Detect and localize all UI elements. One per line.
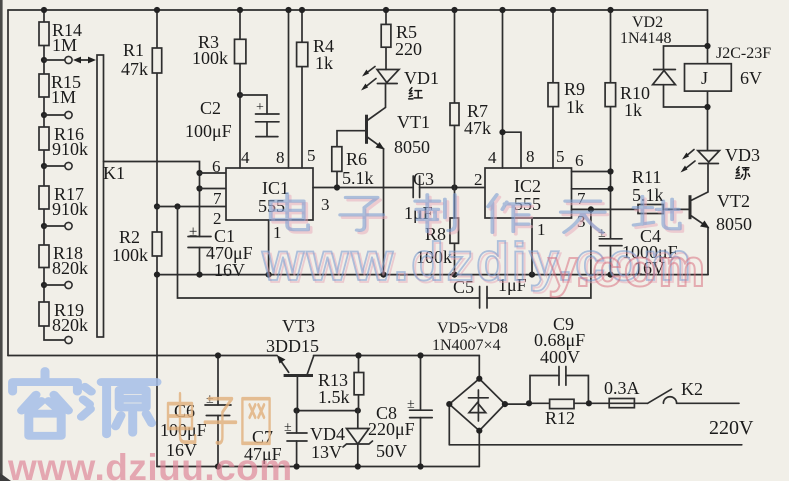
node C8 top bbox=[417, 352, 423, 358]
svg-text:100k: 100k bbox=[112, 245, 148, 265]
resistor R7 bbox=[450, 101, 491, 138]
resistor R10 bbox=[605, 83, 650, 120]
svg-text:VT3: VT3 bbox=[282, 316, 315, 336]
resistor R6 bbox=[332, 131, 374, 188]
svg-text:8050: 8050 bbox=[716, 214, 752, 234]
wire IC1 pin6 bbox=[200, 172, 227, 174]
node top rail junctions bbox=[154, 7, 160, 13]
svg-text:C3: C3 bbox=[413, 169, 434, 189]
wire IC1 pin8 from rail bbox=[288, 10, 290, 168]
svg-text:C2: C2 bbox=[200, 98, 221, 118]
wire K1 to IC1 pins 6/7 bbox=[104, 162, 200, 237]
svg-text:R6: R6 bbox=[346, 149, 367, 169]
wire left edge vertical bbox=[7, 10, 9, 356]
svg-text:1k: 1k bbox=[315, 53, 333, 73]
transistor VT3 3DD15 series regulator bbox=[266, 316, 319, 411]
node R13 top bbox=[355, 352, 361, 358]
svg-text:6: 6 bbox=[575, 151, 584, 170]
svg-text:4: 4 bbox=[241, 148, 250, 167]
node VD4 ground bbox=[355, 463, 361, 469]
svg-text:VT1: VT1 bbox=[397, 112, 430, 132]
svg-text:0.3A: 0.3A bbox=[604, 378, 640, 398]
resistor R3 bbox=[192, 32, 246, 68]
zener VD4 13V bbox=[310, 411, 373, 467]
svg-text:J: J bbox=[701, 68, 708, 88]
svg-text:VD1: VD1 bbox=[404, 68, 439, 88]
watermark dzdiy blue row bbox=[271, 194, 680, 233]
svg-text:4: 4 bbox=[488, 148, 497, 167]
capacitor C5 bbox=[453, 275, 527, 308]
diode VD2 1N4148 bbox=[620, 14, 708, 107]
svg-text:400V: 400V bbox=[540, 347, 580, 367]
transistor VT2 8050 bbox=[690, 164, 752, 275]
node bridge left bbox=[446, 401, 452, 407]
svg-text:IC2: IC2 bbox=[514, 176, 541, 196]
wire VT3 base bias bbox=[297, 410, 358, 412]
svg-text:100k: 100k bbox=[192, 48, 228, 68]
node C4 ground bbox=[607, 272, 613, 278]
node R2 ground junction bbox=[154, 272, 160, 278]
svg-text:VD5~VD8: VD5~VD8 bbox=[437, 320, 508, 337]
node R1/R2/pin2 junction bbox=[154, 203, 160, 209]
resistor chain top lead bbox=[44, 10, 65, 340]
resistor R12 bbox=[545, 399, 575, 428]
wire R5/VD1/VT1 collector chain bbox=[367, 10, 387, 121]
fuse 0.3A bbox=[604, 378, 640, 408]
capacitor C1 bbox=[188, 224, 253, 280]
node chain top bbox=[41, 7, 47, 13]
node bridge bottom bbox=[476, 428, 482, 434]
wire +12V rail right segment bbox=[314, 355, 480, 357]
svg-text:±: ± bbox=[407, 397, 415, 412]
transistor VT1 8050 bbox=[367, 112, 431, 275]
wire bottom negative rail bbox=[157, 466, 479, 468]
svg-text:6V: 6V bbox=[740, 68, 762, 88]
node pin7 tie bbox=[607, 186, 613, 192]
svg-text:220μF: 220μF bbox=[368, 419, 415, 439]
node pin7 tie bbox=[196, 185, 202, 191]
watermark dianziwang orange chars bbox=[168, 394, 270, 444]
svg-text:1M: 1M bbox=[51, 87, 76, 107]
wire IC2 pin6 bbox=[572, 171, 611, 173]
svg-text:www.dziuu.com: www.dziuu.com bbox=[7, 447, 293, 481]
node pin3 branch bbox=[588, 206, 594, 212]
svg-text:6: 6 bbox=[212, 157, 221, 176]
svg-text:R12: R12 bbox=[545, 408, 575, 428]
svg-text:1N4148: 1N4148 bbox=[620, 30, 672, 47]
svg-text:1.5k: 1.5k bbox=[318, 387, 350, 407]
wire +12V rail left segment bbox=[8, 355, 277, 357]
capacitor C4 bbox=[598, 226, 678, 278]
svg-text:5: 5 bbox=[556, 147, 565, 166]
svg-text:VD4: VD4 bbox=[310, 424, 345, 444]
svg-text:16V: 16V bbox=[214, 260, 245, 280]
wire C5 lower loop right part bbox=[487, 209, 591, 298]
node VT1 emitter ground bbox=[380, 272, 386, 278]
resistor R19 bbox=[39, 300, 88, 335]
svg-text:y.com: y.com bbox=[548, 239, 707, 298]
watermark dzdiy pink shadow row bbox=[273, 196, 682, 235]
switch K2 bbox=[648, 379, 703, 403]
wire AC live upper bbox=[528, 402, 739, 404]
wire R1-R2 vertical dropper bbox=[156, 10, 158, 467]
resistor R8 bbox=[416, 218, 459, 267]
node C5-branch junction bbox=[174, 203, 180, 209]
relay J2C-23F coil bbox=[685, 45, 772, 91]
svg-text:8050: 8050 bbox=[394, 137, 430, 157]
node pin4/8 jog bbox=[499, 129, 505, 135]
wire R3 lead (pin 4) bbox=[239, 10, 241, 168]
svg-text:VD3: VD3 bbox=[725, 145, 760, 165]
wire top supply rail bbox=[8, 9, 708, 11]
wire IC2 pin1 bbox=[531, 218, 533, 275]
resistor R2 bbox=[112, 227, 162, 265]
svg-text:R9: R9 bbox=[564, 79, 585, 99]
svg-text:R11: R11 bbox=[632, 167, 661, 187]
timer IC2 555 bbox=[485, 168, 572, 218]
resistor R16 bbox=[39, 124, 88, 159]
wire IC1 pin2 horizontal bbox=[157, 206, 226, 208]
resistor R5 bbox=[381, 22, 422, 59]
svg-text:±: ± bbox=[189, 224, 197, 240]
resistor R17 bbox=[39, 184, 88, 219]
svg-text:5.1k: 5.1k bbox=[342, 168, 374, 188]
wire IC1 pin7 bbox=[200, 188, 227, 190]
capacitor C7 bbox=[244, 411, 307, 467]
capacitor C9 loop bbox=[530, 314, 588, 403]
svg-text:220V: 220V bbox=[709, 417, 754, 439]
wire R4 lead (pin 5) bbox=[301, 10, 303, 168]
svg-text:K2: K2 bbox=[681, 379, 703, 399]
svg-text:47k: 47k bbox=[464, 118, 491, 138]
svg-text:VT2: VT2 bbox=[717, 191, 750, 211]
svg-text:VD2: VD2 bbox=[632, 14, 663, 31]
wire AC neutral lower bbox=[449, 444, 742, 446]
svg-text:1M: 1M bbox=[52, 35, 77, 55]
node VD2 bottom bbox=[704, 104, 710, 110]
svg-text:8: 8 bbox=[276, 148, 285, 167]
svg-text:8: 8 bbox=[526, 147, 535, 166]
LED VD3 green bbox=[681, 145, 761, 179]
wire IC2 pins 4/8 from rail bbox=[503, 10, 522, 168]
svg-text:5.1k: 5.1k bbox=[632, 185, 664, 205]
node pin6 tie bbox=[607, 168, 613, 174]
wire C5 lower loop bbox=[178, 207, 480, 299]
node tap5 bbox=[41, 282, 47, 288]
svg-text:2: 2 bbox=[474, 170, 483, 189]
scan edge strip bbox=[0, 0, 3, 481]
node C6 top bbox=[215, 352, 221, 358]
switch K1 selector bar bbox=[97, 55, 125, 337]
bridge rectifier VD5~VD8 bbox=[432, 320, 528, 467]
svg-text:820k: 820k bbox=[52, 258, 88, 278]
node R12 left bbox=[526, 400, 532, 406]
node R12 right bbox=[586, 400, 592, 406]
svg-text:±: ± bbox=[284, 420, 292, 435]
svg-text:220: 220 bbox=[395, 39, 422, 59]
wire R9 lead (pin 5) bbox=[552, 10, 554, 168]
resistor R13 bbox=[318, 356, 364, 411]
node C7 ground bbox=[294, 463, 300, 469]
wire R10/C4 vertical bbox=[610, 10, 612, 275]
resistor R11 bbox=[632, 167, 689, 214]
node IC2 pin1 ground bbox=[529, 272, 535, 278]
op-amp timer IC1 555 bbox=[226, 168, 313, 220]
svg-text:2: 2 bbox=[213, 209, 222, 228]
resistor R9 bbox=[548, 79, 585, 117]
wire C3 to IC2 pin2 bbox=[420, 187, 485, 189]
wire relay vertical from rail bbox=[707, 10, 709, 151]
svg-text:5: 5 bbox=[307, 146, 316, 165]
resistor R14 bbox=[39, 20, 82, 55]
svg-text:50V: 50V bbox=[376, 441, 407, 461]
svg-text:3DD15: 3DD15 bbox=[266, 336, 319, 356]
wire ground rail (mid) bbox=[157, 274, 708, 276]
wire IC1 pin3 output bbox=[313, 187, 413, 189]
svg-text:1N4007×4: 1N4007×4 bbox=[432, 337, 501, 354]
node bridge top bbox=[476, 376, 482, 382]
node tap1 bbox=[41, 57, 47, 63]
svg-text:J2C-23F: J2C-23F bbox=[716, 45, 771, 62]
node R8 ground bbox=[451, 272, 457, 278]
node VD2 top bbox=[704, 43, 710, 49]
capacitor C3 bbox=[404, 169, 434, 223]
svg-text:100μF: 100μF bbox=[185, 121, 232, 141]
svg-text:R1: R1 bbox=[123, 40, 144, 60]
svg-text:1k: 1k bbox=[566, 97, 584, 117]
node tap2 bbox=[41, 112, 47, 118]
svg-text:7: 7 bbox=[213, 189, 222, 208]
svg-text:1k: 1k bbox=[624, 100, 642, 120]
node IC1 pin1 ground bbox=[266, 272, 272, 278]
wire R8 leads bbox=[454, 188, 456, 275]
wire C1 bottom lead bbox=[199, 248, 201, 275]
node base wire left bbox=[294, 408, 300, 414]
node bridge right bbox=[502, 401, 508, 407]
node tap3 bbox=[41, 163, 47, 169]
resistor R18 bbox=[39, 243, 88, 278]
capacitor C2 bbox=[185, 95, 279, 141]
node C6 bottom bbox=[215, 463, 221, 469]
watermark rongyuan blue chars bbox=[13, 371, 157, 436]
node pin6 tie bbox=[196, 170, 202, 176]
capacitor C8 bbox=[368, 356, 432, 467]
wire R7 lead bbox=[454, 10, 456, 188]
node base wire right bbox=[355, 408, 361, 414]
svg-text:820k: 820k bbox=[52, 315, 88, 335]
corner mark bbox=[0, 473, 11, 481]
node R7/R8 junction bbox=[451, 184, 457, 190]
node C1 ground bbox=[196, 272, 202, 278]
svg-text:13V: 13V bbox=[311, 442, 342, 462]
wire IC1 pin1 to ground rail bbox=[268, 220, 270, 275]
svg-text:K1: K1 bbox=[103, 163, 125, 183]
svg-text:910k: 910k bbox=[52, 139, 88, 159]
svg-text:910k: 910k bbox=[52, 199, 88, 219]
svg-text:+: + bbox=[256, 100, 264, 115]
node C8 bottom bbox=[417, 463, 423, 469]
capacitor C6 bbox=[160, 356, 231, 467]
resistor R4 bbox=[297, 36, 334, 73]
wire IC2 pin3 output to R11 bbox=[572, 208, 639, 210]
svg-text:IC1: IC1 bbox=[262, 178, 289, 198]
resistor R1 bbox=[121, 40, 162, 79]
wire IC2 pin7 tie bbox=[572, 188, 611, 190]
svg-text:3: 3 bbox=[321, 195, 330, 214]
tap contact circles bbox=[65, 56, 72, 63]
svg-text:47k: 47k bbox=[121, 59, 148, 79]
svg-text:R2: R2 bbox=[119, 227, 140, 247]
wiper double arrow bbox=[73, 57, 96, 64]
wire tap leads bbox=[44, 60, 65, 285]
node tap4 bbox=[41, 223, 47, 229]
LED VD1 red bbox=[361, 67, 439, 99]
node R6 bottom bbox=[334, 184, 340, 190]
resistor R15 bbox=[39, 72, 81, 107]
node C2 tap bbox=[237, 92, 243, 98]
